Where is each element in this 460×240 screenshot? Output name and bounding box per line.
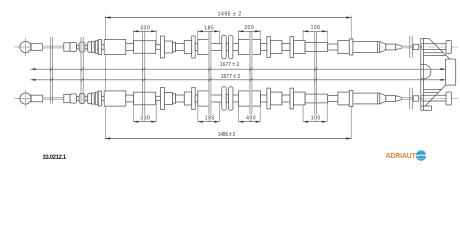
bracket bottom plate line 2 <box>424 92 439 94</box>
grey witness band 2 <box>250 32 253 122</box>
extension line 100 left <box>302 30 304 47</box>
svg-text:1495 ± 2: 1495 ± 2 <box>218 11 242 17</box>
bottom cable assembly <box>17 87 452 110</box>
globe swirl 2 <box>418 157 424 160</box>
bracket foot right edge <box>431 106 433 110</box>
bracket bottom edge <box>421 105 432 107</box>
bracket top edge <box>421 38 429 40</box>
right bracket <box>421 39 456 111</box>
dimension 1677 first line <box>31 68 446 70</box>
cutout lower ledge <box>421 78 424 80</box>
svg-text:490: 490 <box>246 115 256 121</box>
bracket top plate line 2 <box>424 54 446 56</box>
svg-text:330: 330 <box>140 116 150 122</box>
dimension 100 bottom <box>303 121 327 123</box>
globe swirl 1 <box>416 154 426 156</box>
bracket top plate line 1 <box>424 52 444 54</box>
break line pair B <box>81 37 83 104</box>
dimension 100 top <box>303 30 327 32</box>
dimension 490 bottom <box>238 121 260 123</box>
bracket left wall inner <box>423 39 425 111</box>
grey witness band 1 <box>209 32 212 122</box>
center line bottom cable <box>14 98 458 100</box>
extension line 1495 left (x=105.5) <box>105 16 107 140</box>
extension line 185 right <box>218 30 220 47</box>
cutout upper ledge <box>421 63 424 65</box>
svg-text:ADRIAUT: ADRIAUT <box>386 153 417 160</box>
dimension 200 top <box>238 30 260 32</box>
bracket U cutout <box>424 64 431 78</box>
extension line 330 right <box>155 30 157 47</box>
svg-text:1677 ± 2: 1677 ± 2 <box>221 74 241 80</box>
svg-text:100: 100 <box>311 25 321 31</box>
bracket top diagonal <box>429 39 450 60</box>
svg-text:33.0212.1: 33.0212.1 <box>42 154 66 161</box>
dimension 330 top <box>133 30 156 32</box>
dimension 330 bottom <box>133 121 156 123</box>
bracket foot bottom <box>421 109 432 111</box>
break line D <box>315 32 317 121</box>
break line pair C <box>143 32 145 122</box>
globe highlight <box>418 151 425 154</box>
svg-text:185: 185 <box>205 116 215 122</box>
svg-text:1677 ± 2: 1677 ± 2 <box>220 62 240 68</box>
svg-text:330: 330 <box>140 25 150 31</box>
center line top cable <box>14 46 458 48</box>
extension line 330 left <box>132 30 134 47</box>
extension line 200/490 left <box>237 30 239 47</box>
dimension 1495 top line <box>106 17 352 19</box>
break line pair A <box>50 37 52 104</box>
dimension 185 bottom <box>198 121 220 123</box>
bracket bottom diagonal <box>425 85 445 106</box>
svg-text:1495 ± 2: 1495 ± 2 <box>218 132 236 138</box>
svg-text:185: 185 <box>204 25 214 31</box>
extension line 185 left <box>197 30 199 47</box>
dimension 1677 second line <box>31 79 446 81</box>
dimension 1495 bottom line <box>105 138 351 140</box>
bracket left wall outer <box>420 39 422 111</box>
extension line 1495 right (x=351.2) <box>350 16 352 56</box>
svg-text:100: 100 <box>311 115 321 121</box>
dimension 185 top <box>198 30 220 32</box>
bracket right plate <box>446 59 456 85</box>
ADRIAUTO logo globe <box>416 150 426 160</box>
bracket bottom plate line 1 <box>424 88 442 90</box>
break ticks on 1677 lines <box>50 67 317 81</box>
svg-text:200: 200 <box>244 25 254 31</box>
extension line 200/490 right <box>259 30 261 47</box>
extension line 100 right <box>326 30 328 47</box>
top cable assembly <box>17 35 452 58</box>
